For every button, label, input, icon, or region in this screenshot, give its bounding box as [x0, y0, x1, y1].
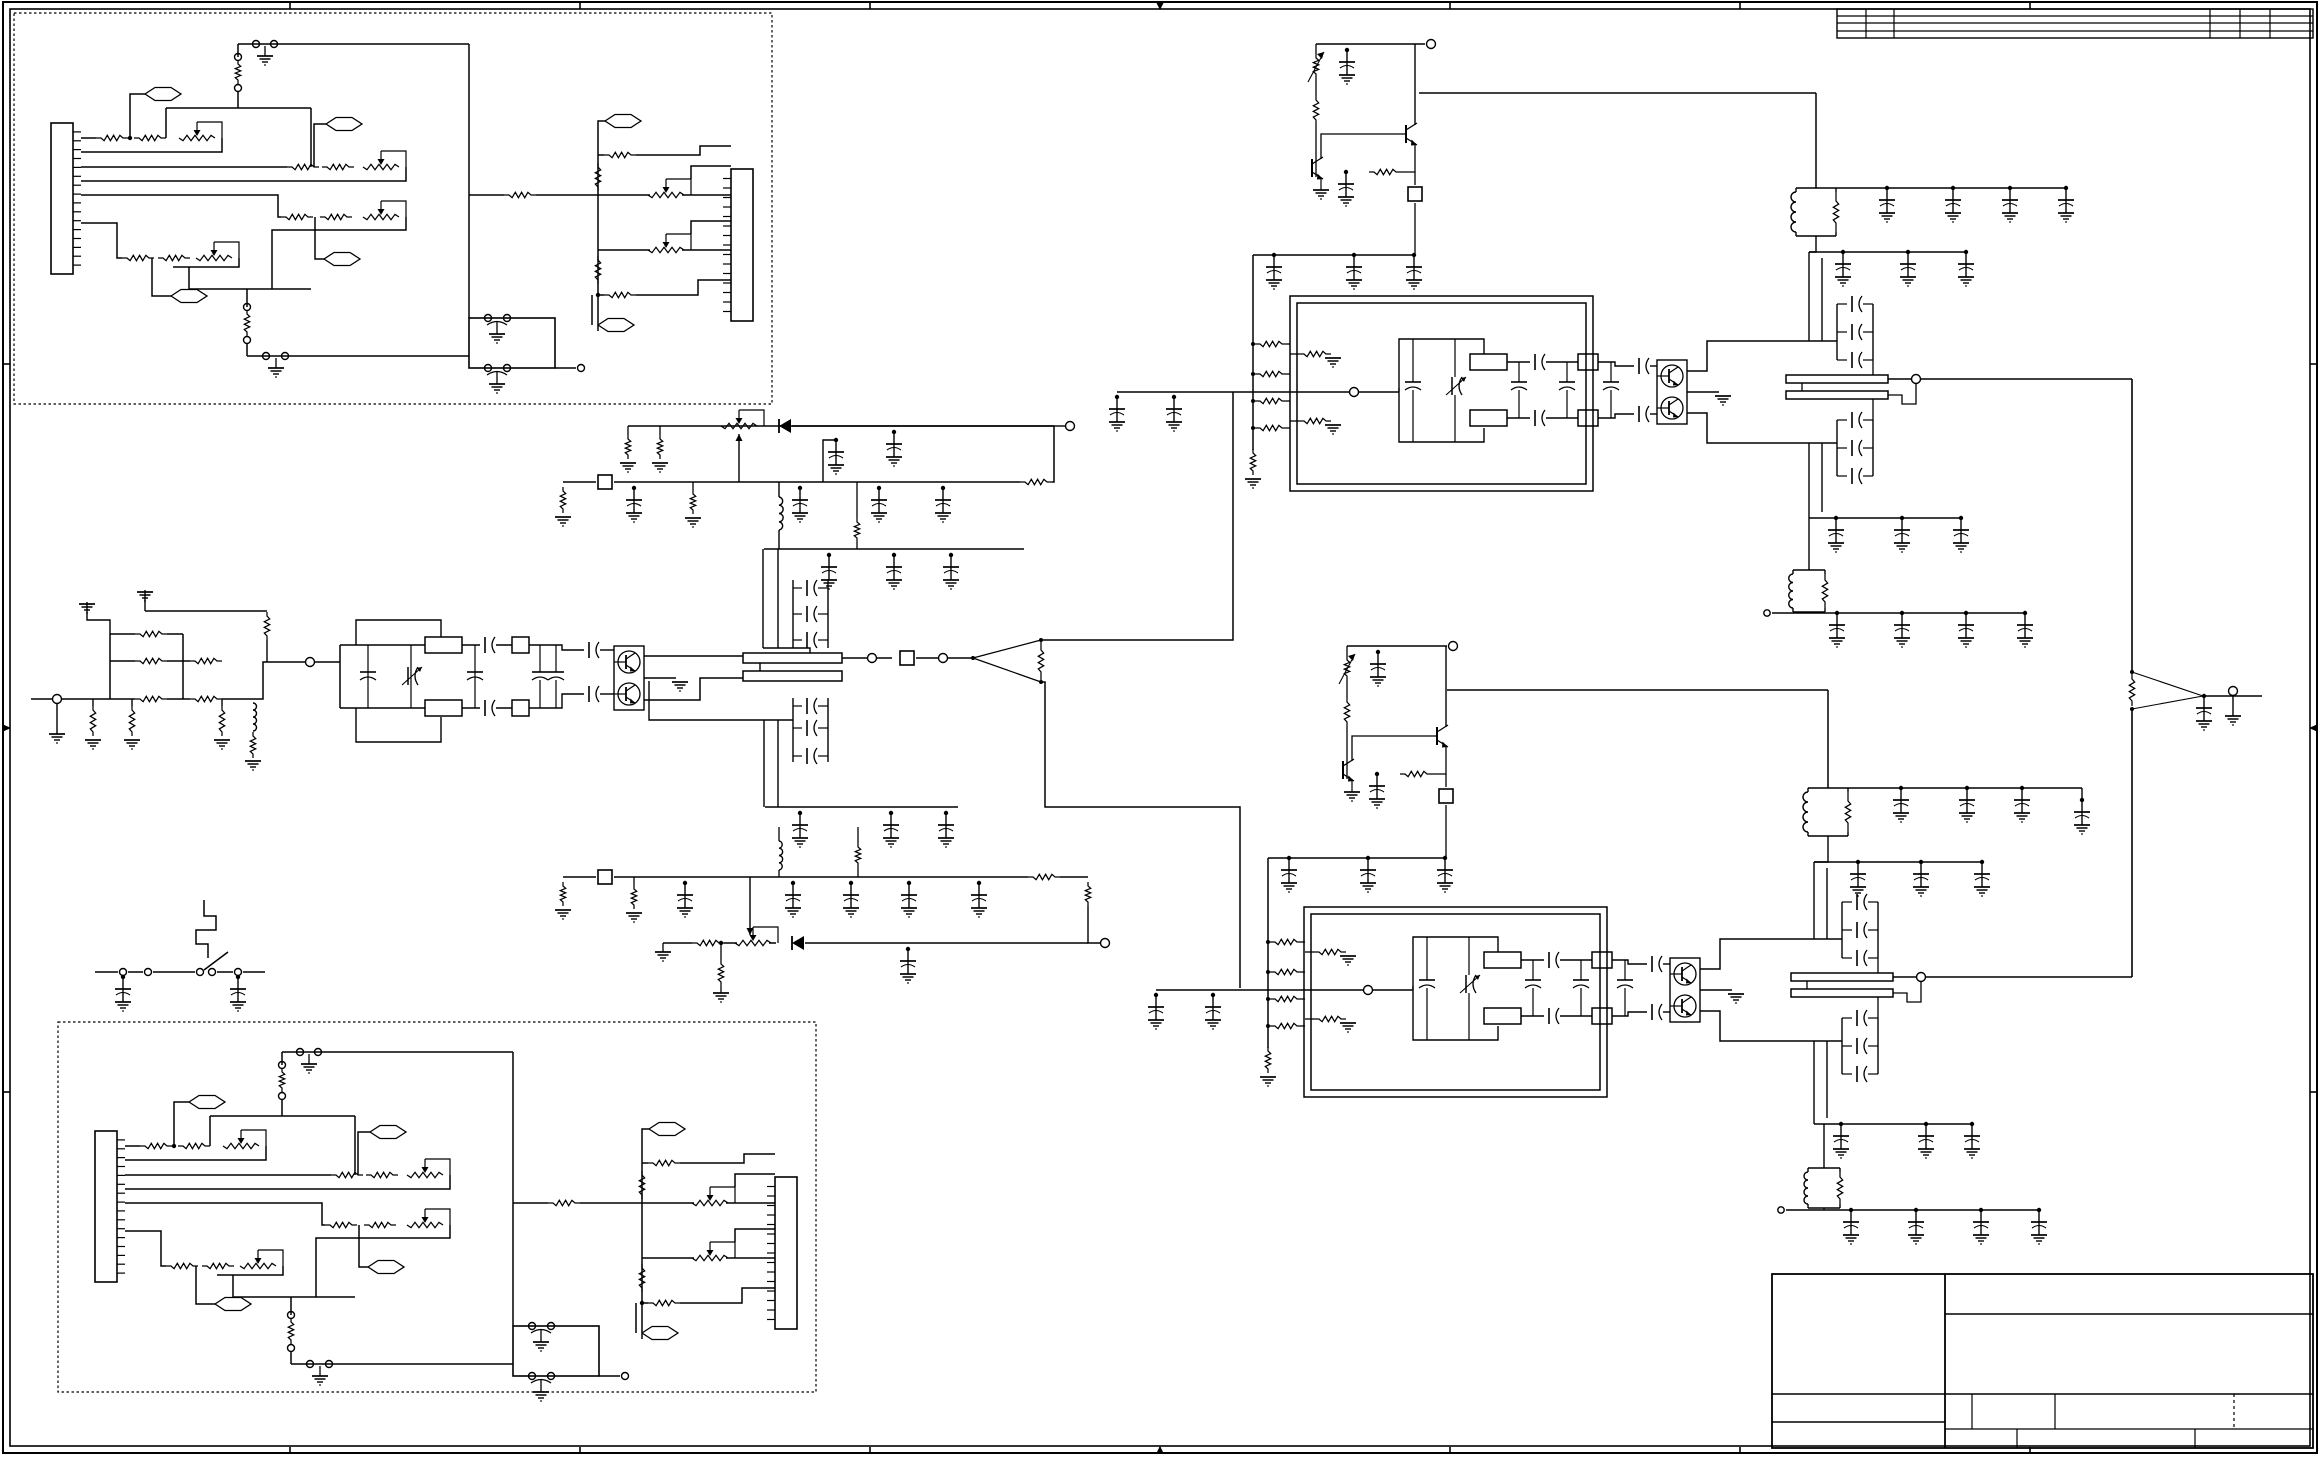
wire driver base top [529, 645, 584, 650]
wire PA bias base link (upper PA) [1321, 134, 1406, 159]
wire drv bias rail bottom b [614, 876, 1028, 878]
wire row4 from J1 (box2) [125, 1231, 166, 1266]
PA upper stack rails (lower PA) [1842, 902, 1878, 958]
wire PA bias feed 1 (lower PA) [1302, 941, 1305, 943]
resistor PA inner upper (lower PA) [1314, 949, 1346, 954]
bus bottom drop (box2) [232, 1275, 234, 1297]
border zone tick top 5 [1739, 2, 1741, 9]
wire PA bar1 lead (upper PA) [1888, 378, 1911, 380]
arrowhead drv pass [736, 434, 743, 441]
revision table column line [2209, 9, 2211, 38]
revision table column line [1893, 9, 1895, 38]
wire right pot a left (box1) [598, 194, 650, 196]
wire input ground stub [56, 704, 58, 734]
capacitor PA lower stack 2 (lower PA) [1857, 1038, 1867, 1054]
capacitor PA rail2 3 (lower PA) [1974, 860, 1990, 896]
transmission line PA output bar2 (lower PA) [1791, 989, 1893, 997]
bus bottom drop (box1) [188, 267, 190, 289]
resistor row4 a (box1) [122, 255, 154, 260]
potentiometer right b (box1) [648, 234, 691, 253]
transistor PA bias sense (lower PA) [1343, 759, 1354, 782]
wire PA upper stack 1 (lower PA) [1842, 957, 1878, 959]
revision table row line [1837, 15, 2313, 17]
revision table row line [1837, 22, 2313, 24]
potentiometer row4 (box2) [240, 1250, 283, 1269]
capacitor drv second rail c [943, 553, 959, 589]
matching step PA top (upper PA) [1578, 354, 1598, 370]
capacitor PA lower stack 1 (lower PA) [1857, 1010, 1867, 1026]
ground shunt mid [124, 740, 140, 749]
capacitor PA rail1 1 (upper PA) [1879, 186, 1895, 222]
capacitor drv upper rail [886, 430, 902, 466]
resistor PA bus lower (lower PA) [1265, 1047, 1270, 1073]
capacitor PA rail4 1 (upper PA) [1829, 611, 1845, 647]
wire row2 from J1 (box2) [125, 1174, 331, 1176]
wire PA bias rail (lower PA) [1347, 645, 1447, 647]
junction PA bias feed 4 (lower PA) [1266, 1024, 1270, 1028]
matching step PA bottom (upper PA) [1578, 410, 1598, 426]
wire PA base bottom b (upper PA) [1650, 413, 1657, 415]
wire att r3 left [110, 698, 135, 700]
ferrite bead driver output [900, 651, 914, 665]
net flag right bottom (box1) [598, 319, 634, 332]
sub-box bottom terminal a (box2) [529, 1373, 536, 1380]
border zone tick bottom 5 [1739, 1447, 1741, 1453]
resistor right bus a (box1) [595, 163, 600, 191]
capacitor PA rail3 3 (upper PA) [1953, 516, 1969, 552]
wire PA base top b (lower PA) [1663, 963, 1670, 965]
sub-box bottom terminal b (box1) [504, 365, 511, 372]
wire row1 pot loop return (box2) [125, 1146, 266, 1160]
wire drv ls 2 [793, 727, 828, 729]
wire PA bottom row (lower PA) [1521, 1015, 1544, 1017]
capacitor PA upper stack 2 (upper PA) [1852, 324, 1862, 340]
feedback loop inner box (lower PA) [1311, 914, 1600, 1090]
wire drv bot a [633, 877, 635, 885]
junction PA bias feed 3 (upper PA) [1251, 399, 1255, 403]
potentiometer row2 (box2) [407, 1159, 450, 1178]
net flag right top (box1) [605, 115, 641, 128]
resistor row3 a (box1) [281, 214, 313, 219]
capacitor series driver base bottom [589, 686, 599, 702]
wire right pot a right (box2) [726, 1202, 775, 1204]
supply bus horizontal (box2) [210, 1115, 355, 1117]
wire drv res bot leads [857, 827, 859, 877]
resistor PA bias feed 2 (lower PA) [1270, 969, 1302, 974]
border zone tick bottom 3 [869, 1447, 871, 1453]
wire drv ls 1 [793, 705, 828, 707]
wire PA collector top (upper PA) [1687, 341, 1837, 371]
wire PA shunt b (lower PA) [1532, 960, 1534, 1016]
ground symbol top rail (box2) (box2) [301, 1054, 317, 1073]
wire PA lower stack 2 (upper PA) [1837, 447, 1873, 449]
switch blade [204, 952, 228, 970]
junction drv lower [719, 941, 723, 945]
capacitor drv second bot c [938, 811, 954, 847]
resistor drv bot right v [1085, 882, 1090, 906]
capacitor PA shunt b (upper PA) [1511, 382, 1527, 390]
sub-box output terminal (box2) [622, 1373, 629, 1380]
inductor-resistor block VD1 (upper PA) [1791, 188, 1839, 236]
port PA output node (lower PA) [1917, 973, 1926, 982]
resistor splitter isolation [1038, 642, 1043, 680]
ground input stub [49, 734, 65, 743]
capacitor PA rail2 2 (lower PA) [1913, 860, 1929, 896]
capacitor shunt driver a [360, 672, 376, 680]
potentiometer row3 (box1) [363, 201, 406, 220]
top rail terminal b (box2) [315, 1049, 322, 1056]
wire PA upper stack 1 (upper PA) [1837, 359, 1873, 361]
wire flag row4 (box1) [152, 258, 171, 296]
capacitor PA rail1 1 (lower PA) [1893, 786, 1909, 822]
capacitor drv bot e [901, 881, 917, 917]
resistor PA bias feed 4 (lower PA) [1270, 1023, 1302, 1028]
resistor row1 b (box2) [178, 1143, 210, 1148]
sub-box top terminal a (box2) [529, 1323, 536, 1330]
diode drv bias [779, 419, 791, 433]
wire flag row4 (box2) [196, 1266, 215, 1304]
switch wire right [243, 971, 265, 973]
wire driver bias double vertical a [762, 549, 764, 648]
wire PA feed vertical (upper PA) [1815, 93, 1817, 188]
bottom rail terminal a (box1) [263, 353, 270, 360]
trimmer bottom terminal (box1) [235, 85, 242, 92]
capacitor drv second rail b [886, 553, 902, 589]
wire right pot b left (box1) [598, 249, 650, 251]
wire PA bias feed 1 (upper PA) [1287, 343, 1290, 345]
splitter divider network [971, 638, 1043, 684]
wire PA lower stack 1 (upper PA) [1837, 419, 1873, 421]
wire PA riser (upper PA) [1398, 388, 1400, 392]
wire PA bias tap (lower PA) [1446, 689, 1447, 691]
wire row1 from J1 (box1) [81, 137, 96, 139]
capacitor PA bias decouple 3 (lower PA) [1437, 856, 1453, 892]
capacitor PA base bottom (lower PA) [1652, 1004, 1662, 1020]
potentiometer right a (box2) [692, 1187, 735, 1206]
ground PA inner lower (upper PA) [1325, 425, 1341, 434]
wire PA bias net (upper PA) [1315, 169, 1317, 177]
capacitor PA bias a (upper PA) [1339, 48, 1355, 84]
transmission line driver output bar2 [743, 671, 842, 681]
bottom trimmer terminal a (box2) [288, 1312, 295, 1319]
wire PA double bus lower b (lower PA) [1826, 1041, 1828, 1118]
wire drv bias right corner [1052, 426, 1054, 482]
capacitor PA rail4 1 (lower PA) [1843, 1208, 1859, 1244]
ground symbol bottom rail (box1) (box1) [268, 358, 284, 377]
sub-box bottom terminal a (box1) [485, 365, 492, 372]
wire PA base bottom (lower PA) [1612, 1012, 1647, 1016]
capacitor PA series bottom (upper PA) [1535, 410, 1545, 426]
wire right bottom to J2 (box1) [636, 280, 731, 295]
resistor drv bias left edge [560, 487, 565, 513]
transistor PA bias pass (upper PA) [1406, 123, 1417, 146]
capacitor PA shunt a (lower PA) [1419, 980, 1435, 988]
resistor drv lower rail [692, 940, 724, 945]
net flag row4 (box1) [171, 290, 207, 303]
potentiometer drv pass bottom [735, 927, 778, 946]
port drv bias supply [1066, 422, 1075, 431]
wire driver collector top [644, 655, 743, 657]
ground drv lower rail stub [655, 943, 671, 961]
wire trimmer top (box2) [281, 1052, 283, 1065]
wire right pot b right (box1) [682, 249, 731, 251]
title block right row4 divider a [2016, 1429, 2018, 1448]
supply bus drop left (box2) [209, 1116, 211, 1146]
wire PA stack upper link (upper PA) [1872, 360, 1874, 375]
capacitor PA series bottom (lower PA) [1549, 1008, 1559, 1024]
wire cap shunt driver a [367, 645, 369, 708]
wire drv lower rail b [724, 942, 737, 944]
wire PA bias collector (lower PA) [1445, 646, 1447, 727]
wire drv bias inductor [779, 497, 783, 530]
border center arrow bottom [1156, 1446, 1164, 1454]
wire att r1 right [167, 633, 183, 635]
wire top rail (box1) [238, 43, 469, 45]
wire right pot b right (box2) [726, 1257, 775, 1259]
wire PA bias feed 2 (upper PA) [1287, 373, 1290, 375]
wire driver output d [948, 657, 973, 659]
capacitor PA rail3 2 (upper PA) [1894, 516, 1910, 552]
ground driver emitter [672, 682, 688, 691]
ground PA bus lower (upper PA) [1245, 479, 1261, 488]
wire PA vd1 to rail2 (upper PA) [1809, 236, 1816, 252]
junction row1 (box2) [172, 1144, 176, 1148]
border center arrow left [2, 724, 11, 732]
connector J1 left (box2) [95, 1131, 125, 1282]
wire PA emitter (lower PA) [1700, 989, 1732, 991]
wire drv bias rail top b [614, 481, 1020, 483]
connector J2 right (box2) [767, 1177, 797, 1329]
transmission line driver top [425, 637, 462, 653]
resistor attenuator r1 [135, 631, 167, 636]
wire PA top row b (lower PA) [1560, 959, 1592, 961]
wire split upper link [1041, 392, 1233, 640]
wire row4 pot loop return (box2) [217, 1266, 283, 1275]
resistor row4 b (box1) [158, 255, 190, 260]
wire driver lower double vertical b [777, 720, 779, 807]
wire trimmer to bus (box1) [237, 92, 239, 108]
wire PA bias bead down (upper PA) [1414, 172, 1416, 255]
wire PA rail3 (upper PA) [1809, 517, 1961, 519]
capacitor drv bot b [677, 881, 693, 917]
resistor shunt right [219, 706, 224, 736]
supply bus drop right (box2) [354, 1116, 356, 1175]
wire driver loop lower [356, 708, 441, 742]
ground PA bias sense (lower PA) [1344, 792, 1360, 801]
capacitor drv lower rail cap [900, 947, 916, 983]
wire driver bottom row b [462, 707, 480, 709]
potentiometer row4 (box1) [196, 242, 239, 261]
wire PA bars connector (lower PA) [1806, 981, 1808, 989]
wire PA feed vertical (lower PA) [1827, 690, 1829, 788]
potentiometer PA bias (upper PA) [1308, 52, 1324, 82]
switch wire b-pole [153, 971, 195, 973]
transistor PA bias pass (lower PA) [1437, 725, 1448, 748]
wire PA feed horizontal (upper PA) [1419, 92, 1816, 94]
wire sub-box output (box1) [555, 367, 576, 369]
wire driver lower stack link [763, 719, 793, 721]
potentiometer right a (box1) [648, 179, 691, 198]
inductor-resistor block VD2 (upper PA) [1789, 570, 1828, 612]
potentiometer row3 (box2) [407, 1209, 450, 1228]
top rail terminal a (box1) [253, 41, 260, 48]
wire att r3 right [167, 698, 190, 700]
ground drv bias bot left [555, 910, 571, 919]
wire main to jog [222, 698, 253, 700]
right network bus (box1) [597, 128, 599, 331]
capacitor drv bias c [871, 486, 887, 522]
wire drv lower shunt [720, 943, 722, 993]
port PA input node (lower PA) [1364, 986, 1373, 995]
junction PA bias feed 2 (upper PA) [1251, 372, 1255, 376]
wire PA upper stack 3 (upper PA) [1837, 303, 1873, 305]
transmission line PA bottom (upper PA) [1470, 410, 1507, 426]
ground PA inner lower (lower PA) [1340, 1023, 1356, 1032]
resistor mid link (box2) [548, 1200, 580, 1205]
resistor PA inner lower (lower PA) [1314, 1016, 1346, 1021]
resistor PA inner lower (upper PA) [1299, 418, 1331, 423]
resistor drv bot a [631, 885, 636, 909]
capacitor-ground glyph sub-box top (box2) (box2) [531, 1330, 551, 1352]
wire driver top row b [462, 644, 480, 646]
wire PA double bus lower a (lower PA) [1813, 1041, 1815, 1124]
resistor PA bias divider (lower PA) [1344, 698, 1349, 726]
capacitor PA rail4 4 (lower PA) [2031, 1208, 2047, 1244]
wire PA rail3 to vd2 (lower PA) [1823, 1124, 1825, 1168]
border zone tick right 1 [2310, 363, 2317, 365]
wire drv second rail bottom [765, 806, 958, 808]
top rail terminal a (box2) [297, 1049, 304, 1056]
resistor series top [264, 612, 269, 640]
capacitor stub drv bias [823, 440, 836, 482]
wire attenuator left bus [109, 634, 111, 699]
capacitor PA bias decouple 1 (upper PA) [1266, 253, 1282, 289]
capacitor PA bias decouple 2 (upper PA) [1346, 253, 1362, 289]
wire PA bias divider (lower PA) [1346, 680, 1348, 771]
bus right vertical (box1) [468, 44, 470, 318]
wire PA collector bottom (upper PA) [1687, 413, 1837, 443]
wire PA inner lower (lower PA) [1305, 1018, 1314, 1020]
wire PA upper stack 2 (upper PA) [1837, 331, 1873, 333]
wire PA loop lower (upper PA) [1399, 392, 1484, 442]
transmission line driver bottom [425, 700, 462, 716]
wire bottom trimmer down (box2) [290, 1352, 292, 1364]
wire PA loop upper (upper PA) [1399, 339, 1484, 392]
capacitor PA shunt c (lower PA) [1573, 980, 1589, 988]
wire PA rail4 (upper PA) [1772, 612, 2025, 614]
wire drv bias port [1054, 425, 1065, 427]
capacitor PA bias a (lower PA) [1370, 650, 1386, 686]
trimmer resistor top (box1) [235, 60, 240, 84]
wire driver top row [340, 644, 425, 646]
wire PA upper stack 2 (lower PA) [1842, 929, 1878, 931]
wire node to matching [315, 661, 340, 663]
wire PA bias tap (upper PA) [1415, 92, 1419, 94]
trimmer resistor top (box2) [279, 1068, 284, 1092]
wire PA loop upper (lower PA) [1413, 937, 1498, 990]
net flag row3 (box2) [368, 1261, 404, 1274]
resistor attenuator r2 [135, 658, 167, 663]
port driver input node [306, 658, 315, 667]
resistor row3 b (box1) [320, 214, 352, 219]
wire driver bars connector [759, 663, 761, 671]
wire flag row3 (box1) [315, 217, 324, 259]
capacitor feedback driver 3 [807, 632, 817, 648]
wire PA double bus lower a (upper PA) [1808, 443, 1810, 518]
wire PA double bus upper a (lower PA) [1813, 862, 1815, 939]
port PA rail4 (upper PA) [1764, 610, 1770, 616]
border zone tick left 2 [3, 1091, 10, 1093]
resistor drv bias top a [690, 490, 695, 514]
wire mid link b (box2) [580, 1202, 642, 1204]
resistor shunt branch [250, 732, 255, 758]
junction right bus bottom (box1) [596, 293, 600, 297]
wire PA double bus upper a (upper PA) [1808, 252, 1810, 341]
wire PA bias pot lead (upper PA) [1315, 44, 1317, 54]
capacitor variable driver [402, 667, 422, 685]
capacitor PA rail1 4 (upper PA) [2058, 186, 2074, 222]
wire drv lower rail c [769, 942, 776, 944]
resistor row1 a (box2) [140, 1143, 172, 1148]
border zone tick bottom 2 [579, 1447, 581, 1453]
wire PA base top (upper PA) [1598, 362, 1634, 366]
capacitor PA upper stack 2 (lower PA) [1857, 922, 1867, 938]
PA upper stack rails (upper PA) [1837, 304, 1873, 360]
capacitor series driver base top [589, 642, 599, 658]
wire flag right top (box2) [642, 1129, 649, 1136]
wire driver bias double vertical b [777, 549, 779, 648]
feedback loop inner box (upper PA) [1297, 303, 1586, 484]
junction combiner bottom [2130, 707, 2134, 711]
switch throw terminal [209, 969, 216, 976]
capacitor PA rail1 3 (upper PA) [2002, 186, 2018, 222]
border zone tick top 1 [289, 2, 291, 9]
resistor PA bias feed 3 (lower PA) [1270, 996, 1302, 1001]
wire PA rail3 to vd2 (upper PA) [1808, 518, 1810, 570]
resistor PA bias feed 3 (upper PA) [1255, 398, 1287, 403]
bus right vertical (box2) [512, 1052, 514, 1326]
wire PA feed horizontal (lower PA) [1447, 689, 1828, 691]
wire sub-box output (box2) [599, 1375, 620, 1377]
ferrite bead PA bias (lower PA) [1439, 789, 1453, 803]
ferrite bead PA bias (upper PA) [1408, 187, 1422, 201]
port PA bias supply (upper PA) [1427, 40, 1436, 49]
diode drv bias bottom [792, 936, 804, 950]
ground drv bot a [626, 913, 642, 922]
resistor row2 b (box2) [366, 1172, 398, 1177]
wire PA bar1 lead (lower PA) [1893, 976, 1916, 978]
wire right bottom stub (box1) [598, 294, 604, 296]
wire PA node to riser (lower PA) [1373, 989, 1413, 991]
wire flag row2 (box2) [358, 1132, 370, 1175]
capacitor PA series top (lower PA) [1549, 952, 1559, 968]
capacitor PA bias b (upper PA) [1338, 170, 1354, 206]
wire PA bias gnd stub (upper PA) [1320, 177, 1322, 190]
transmission line PA top (lower PA) [1484, 952, 1521, 968]
ground shunt right [214, 740, 230, 749]
matching step PA bottom (lower PA) [1592, 1008, 1612, 1024]
wire RF output stub [2232, 696, 2234, 716]
capacitor PA series top (upper PA) [1535, 354, 1545, 370]
resistor PA bias feed 1 (upper PA) [1255, 341, 1287, 346]
capacitor shunt driver d [548, 672, 564, 680]
wire PA inner upper (lower PA) [1305, 951, 1314, 953]
port driver output node b [939, 654, 948, 663]
switch terminal c [235, 969, 242, 976]
wire drv diode to rail [792, 425, 1054, 427]
capacitor PA shunt b (lower PA) [1525, 980, 1541, 988]
wire bottom rail (box1) [247, 355, 469, 357]
